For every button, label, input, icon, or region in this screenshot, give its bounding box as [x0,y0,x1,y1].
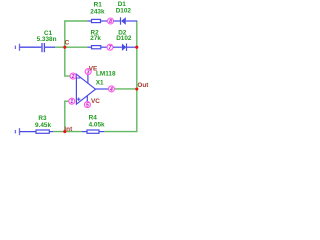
resistor R3 [20,130,54,133]
wire: left rail top (node C vertical) with R1 feed [65,21,88,76]
pin 2 bubble [70,73,76,79]
svg-text:1: 1 [70,99,73,105]
junction Out-rail [135,87,138,90]
pin 1 bubble [69,98,75,104]
svg-text:R1: R1 [94,2,103,9]
resistor R4 [82,130,104,133]
plus sign [77,98,80,100]
wire: right rail from D1 down to R4 [104,21,137,132]
svg-text:27k: 27k [90,35,101,42]
svg-text:C: C [65,40,70,47]
junction node C [63,46,66,49]
resistor R1 [88,19,108,22]
wire: D2 stub to rail [135,46,137,48]
terminal input (C1) [15,44,19,51]
junction node Int [63,130,66,133]
svg-text:VC: VC [91,98,100,105]
svg-text:D102: D102 [116,35,132,42]
op-amp X1 triangle [76,74,95,104]
junction D2-rail [135,46,138,49]
terminal input (R3) [15,128,19,135]
svg-text:8: 8 [109,19,112,25]
svg-text:2: 2 [71,74,75,80]
minus sign [77,77,80,79]
svg-text:7: 7 [109,45,112,51]
svg-text:4: 4 [109,87,113,93]
pin 4 bubble [108,86,114,92]
wire: opamp output to rail (Out) [114,88,137,90]
svg-text:LM118: LM118 [96,71,116,78]
svg-text:Out: Out [137,82,149,89]
diode D1 [114,17,138,24]
svg-text:5.338n: 5.338n [37,36,57,43]
svg-text:D102: D102 [116,7,132,14]
wire: C1 to node C to R2 [55,46,88,48]
svg-text:5: 5 [86,103,89,109]
pin stubs VE / VC / output [87,75,89,84]
svg-text:4.05k: 4.05k [89,121,105,128]
svg-text:243k: 243k [90,9,105,16]
resistor R2 [88,46,108,49]
node bubble 7 (R2-D2) [107,44,113,50]
wire: R3 to Int junction to R4 [53,131,82,133]
diode D2 [113,44,137,51]
pin 5 bubble [84,102,90,108]
node bubble 8 (R1-D1) [108,18,114,24]
wire: in+ down to node Int [65,101,69,131]
svg-text:9.45k: 9.45k [35,122,51,129]
pin 3 bubble [85,69,91,75]
capacitor C1 [20,43,56,52]
svg-text:X1: X1 [96,79,104,86]
